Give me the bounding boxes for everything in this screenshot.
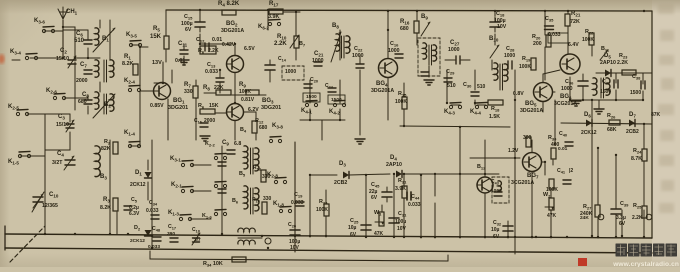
svg-text:C22: C22 bbox=[354, 46, 363, 52]
svg-text:300: 300 bbox=[523, 135, 532, 141]
svg-text:C8: C8 bbox=[82, 92, 89, 98]
svg-text:2AP10: 2AP10 bbox=[600, 60, 616, 66]
svg-text:15K: 15K bbox=[209, 103, 219, 109]
svg-text:3CG201A: 3CG201A bbox=[511, 180, 534, 186]
svg-text:100µ: 100µ bbox=[395, 219, 406, 225]
svg-text:C29: C29 bbox=[446, 69, 455, 75]
svg-text:B5: B5 bbox=[239, 171, 246, 177]
svg-text:3.9K: 3.9K bbox=[268, 14, 279, 20]
svg-text:C32: C32 bbox=[493, 220, 502, 226]
svg-text:K3-6: K3-6 bbox=[34, 18, 45, 24]
svg-text:C18: C18 bbox=[496, 11, 505, 17]
svg-text:100K: 100K bbox=[316, 207, 328, 213]
svg-text:2AP10: 2AP10 bbox=[386, 162, 402, 168]
svg-text:D5: D5 bbox=[604, 53, 611, 59]
svg-text:3DG201: 3DG201 bbox=[168, 105, 188, 111]
svg-text:C37: C37 bbox=[602, 79, 611, 85]
svg-text:680: 680 bbox=[78, 99, 87, 105]
svg-text:K2-5: K2-5 bbox=[8, 104, 19, 110]
svg-text:K4-3: K4-3 bbox=[444, 109, 455, 115]
svg-text:0.033: 0.033 bbox=[408, 202, 421, 208]
svg-text:2000: 2000 bbox=[76, 78, 88, 84]
svg-text:B7: B7 bbox=[299, 41, 306, 47]
svg-text:C35: C35 bbox=[545, 16, 554, 22]
svg-text:K1-4: K1-4 bbox=[124, 130, 135, 136]
svg-text:B1: B1 bbox=[102, 36, 109, 42]
svg-text:1.5K: 1.5K bbox=[489, 114, 500, 120]
svg-text:C44: C44 bbox=[411, 194, 420, 200]
svg-text:100K: 100K bbox=[395, 99, 407, 105]
svg-text:1500: 1500 bbox=[331, 97, 342, 103]
svg-text:K2-2: K2-2 bbox=[205, 141, 216, 147]
svg-text:82K: 82K bbox=[101, 146, 111, 152]
svg-text:0.033: 0.033 bbox=[205, 69, 218, 75]
svg-text:1000: 1000 bbox=[388, 48, 400, 54]
svg-text:R7: R7 bbox=[184, 82, 191, 88]
svg-text:B2: B2 bbox=[104, 102, 111, 108]
svg-text:K2-4: K2-4 bbox=[124, 78, 135, 84]
svg-text:R6: R6 bbox=[198, 103, 205, 109]
svg-text:C3: C3 bbox=[58, 114, 65, 120]
svg-text:R16: R16 bbox=[400, 19, 410, 25]
svg-text:2CB2: 2CB2 bbox=[626, 129, 639, 135]
svg-text:3CG201A: 3CG201A bbox=[554, 101, 577, 107]
svg-text:680: 680 bbox=[400, 26, 409, 32]
svg-text:K4-1: K4-1 bbox=[301, 108, 312, 114]
svg-text:C40: C40 bbox=[559, 131, 567, 137]
svg-text:R9: R9 bbox=[239, 82, 246, 88]
svg-text:|2: |2 bbox=[569, 168, 573, 174]
svg-text:D1: D1 bbox=[135, 170, 142, 176]
svg-text:1000: 1000 bbox=[561, 86, 573, 92]
svg-text:R17: R17 bbox=[269, 1, 279, 7]
svg-text:K4-2: K4-2 bbox=[329, 109, 340, 115]
svg-text:K1-6: K1-6 bbox=[202, 213, 213, 219]
svg-text:1000: 1000 bbox=[448, 47, 460, 53]
svg-text:3DG201A: 3DG201A bbox=[371, 88, 394, 94]
svg-text:C48: C48 bbox=[152, 226, 161, 232]
svg-text:BG6: BG6 bbox=[560, 94, 572, 100]
svg-text:R23: R23 bbox=[619, 53, 628, 59]
svg-text:C31: C31 bbox=[398, 211, 407, 217]
svg-text:C4: C4 bbox=[57, 151, 64, 157]
svg-text:0.033: 0.033 bbox=[548, 32, 561, 38]
svg-text:B12: B12 bbox=[477, 164, 486, 170]
svg-text:BG5: BG5 bbox=[525, 101, 537, 107]
svg-text:C5: C5 bbox=[131, 197, 138, 203]
svg-text:0.42V: 0.42V bbox=[222, 42, 236, 48]
svg-text:6V: 6V bbox=[493, 234, 500, 240]
svg-text:R10: R10 bbox=[277, 34, 287, 40]
svg-text:1000: 1000 bbox=[285, 69, 296, 75]
svg-text:0.033: 0.033 bbox=[148, 244, 160, 250]
svg-text:R26: R26 bbox=[607, 113, 616, 119]
svg-text:510: 510 bbox=[447, 83, 456, 89]
svg-text:8.2K: 8.2K bbox=[122, 61, 133, 67]
svg-text:K2-1: K2-1 bbox=[171, 182, 182, 188]
svg-text:BG3: BG3 bbox=[262, 98, 274, 104]
svg-text:15K: 15K bbox=[150, 34, 162, 40]
svg-text:2000: 2000 bbox=[204, 118, 215, 124]
svg-text:10V: 10V bbox=[497, 24, 507, 30]
svg-text:B4: B4 bbox=[240, 127, 247, 133]
svg-text:D7: D7 bbox=[629, 112, 636, 118]
svg-text:K2-6: K2-6 bbox=[46, 88, 57, 94]
svg-text:C16: C16 bbox=[390, 41, 399, 47]
svg-text:2.2K: 2.2K bbox=[617, 60, 628, 66]
svg-text:47K: 47K bbox=[547, 213, 557, 219]
svg-text:K6-2: K6-2 bbox=[258, 24, 269, 30]
svg-text:1000: 1000 bbox=[491, 188, 502, 194]
svg-text:6V: 6V bbox=[371, 195, 378, 201]
svg-text:2CK12: 2CK12 bbox=[581, 130, 597, 136]
svg-text:72K: 72K bbox=[570, 19, 580, 25]
svg-text:C9: C9 bbox=[222, 140, 229, 146]
svg-text:C17: C17 bbox=[168, 224, 176, 230]
svg-text:www.crystalradio.cn: www.crystalradio.cn bbox=[612, 261, 679, 267]
svg-text:0.85V: 0.85V bbox=[150, 103, 164, 109]
svg-text:3DG201A: 3DG201A bbox=[520, 108, 543, 114]
svg-text:6.2V: 6.2V bbox=[248, 107, 259, 113]
svg-text:0.01: 0.01 bbox=[558, 146, 568, 152]
svg-text:2CK12: 2CK12 bbox=[130, 182, 146, 188]
svg-text:D3: D3 bbox=[339, 161, 346, 167]
svg-text:1000: 1000 bbox=[312, 58, 324, 64]
svg-text:3/7: 3/7 bbox=[194, 237, 201, 243]
svg-text:510: 510 bbox=[74, 38, 85, 44]
svg-text:K3-8: K3-8 bbox=[272, 123, 283, 129]
svg-text:R4 8.2K: R4 8.2K bbox=[218, 1, 240, 7]
svg-text:R24: R24 bbox=[633, 148, 642, 154]
svg-text:K3-1: K3-1 bbox=[170, 156, 181, 162]
svg-text:K2-8: K2-8 bbox=[267, 172, 278, 178]
svg-text:B8: B8 bbox=[332, 23, 339, 29]
svg-text:1000: 1000 bbox=[352, 53, 364, 59]
svg-text:2.2K: 2.2K bbox=[208, 48, 219, 54]
svg-text:BG1: BG1 bbox=[173, 98, 185, 104]
svg-text:K3-4: K3-4 bbox=[10, 49, 21, 55]
svg-text:2CB2: 2CB2 bbox=[334, 180, 347, 186]
svg-text:C28: C28 bbox=[506, 46, 515, 52]
svg-text:47K: 47K bbox=[374, 231, 384, 237]
svg-text:K4-4: K4-4 bbox=[470, 109, 481, 115]
svg-text:10µ: 10µ bbox=[491, 227, 500, 233]
svg-text:R19: R19 bbox=[522, 56, 531, 62]
svg-text:R5: R5 bbox=[153, 26, 160, 32]
svg-text:22K: 22K bbox=[214, 85, 224, 91]
svg-text:R1: R1 bbox=[124, 54, 131, 60]
svg-text:R21: R21 bbox=[571, 11, 581, 17]
svg-text:15/10: 15/10 bbox=[56, 122, 69, 128]
svg-text:R25: R25 bbox=[633, 203, 642, 209]
svg-text:R35: R35 bbox=[319, 199, 328, 205]
svg-text:B10: B10 bbox=[489, 36, 499, 42]
svg-text:K1-8: K1-8 bbox=[273, 201, 284, 207]
svg-text:R8: R8 bbox=[203, 85, 210, 91]
svg-text:C10: C10 bbox=[49, 192, 59, 198]
svg-text:R15: R15 bbox=[398, 91, 407, 97]
svg-text:K3-5: K3-5 bbox=[126, 32, 137, 38]
svg-text:R6: R6 bbox=[198, 48, 205, 54]
svg-text:2CK12: 2CK12 bbox=[130, 238, 145, 244]
svg-text:6V: 6V bbox=[350, 232, 357, 238]
svg-text:12/365: 12/365 bbox=[42, 203, 58, 209]
svg-text:0.01: 0.01 bbox=[212, 37, 222, 43]
svg-text:B11: B11 bbox=[601, 46, 610, 52]
svg-text:0.033: 0.033 bbox=[291, 200, 304, 206]
svg-text:C12: C12 bbox=[196, 37, 205, 43]
svg-text:6V: 6V bbox=[619, 221, 626, 227]
svg-text:C41: C41 bbox=[557, 168, 566, 174]
svg-text:C45: C45 bbox=[371, 182, 380, 188]
svg-text:24K: 24K bbox=[580, 215, 589, 221]
svg-text:330: 330 bbox=[184, 89, 193, 95]
svg-text:R22: R22 bbox=[585, 29, 594, 35]
svg-text:CH1: CH1 bbox=[66, 9, 78, 15]
svg-text:C13: C13 bbox=[207, 62, 216, 68]
svg-text:3DG201A: 3DG201A bbox=[221, 28, 244, 34]
svg-text:15/10: 15/10 bbox=[56, 56, 69, 62]
svg-text:R2: R2 bbox=[104, 139, 111, 145]
svg-text:BG2: BG2 bbox=[226, 21, 238, 27]
svg-text:B6: B6 bbox=[232, 198, 239, 204]
svg-text:6.5V: 6.5V bbox=[244, 46, 255, 52]
svg-text:C27: C27 bbox=[450, 40, 460, 46]
svg-text:R18: R18 bbox=[491, 106, 500, 112]
svg-text:10µ: 10µ bbox=[348, 225, 357, 231]
svg-text:100K: 100K bbox=[519, 64, 531, 70]
svg-text:2.2K: 2.2K bbox=[632, 215, 643, 221]
svg-text:C34: C34 bbox=[149, 200, 158, 206]
svg-text:680: 680 bbox=[259, 125, 268, 131]
svg-text:C20: C20 bbox=[310, 77, 318, 83]
svg-text:1.2V: 1.2V bbox=[508, 148, 519, 154]
svg-text:C25: C25 bbox=[350, 218, 359, 224]
svg-text:C38: C38 bbox=[632, 74, 641, 80]
svg-text:3DG201: 3DG201 bbox=[261, 105, 281, 111]
svg-text:6.4V: 6.4V bbox=[568, 42, 579, 48]
svg-text:C21: C21 bbox=[314, 51, 324, 57]
svg-text:BG4: BG4 bbox=[376, 81, 388, 87]
svg-text:D2: D2 bbox=[134, 225, 141, 231]
svg-text:R20: R20 bbox=[532, 34, 541, 40]
svg-text:R3: R3 bbox=[103, 197, 110, 203]
svg-text:B9: B9 bbox=[421, 14, 428, 20]
svg-text:6.3V: 6.3V bbox=[129, 211, 140, 217]
svg-text:510: 510 bbox=[477, 84, 486, 90]
svg-text:C2: C2 bbox=[60, 48, 67, 54]
svg-text:8.7K: 8.7K bbox=[631, 156, 642, 162]
svg-text:C19: C19 bbox=[294, 192, 303, 198]
svg-text:100K: 100K bbox=[582, 37, 594, 43]
svg-text:R27: R27 bbox=[583, 204, 592, 210]
svg-text:3.9K: 3.9K bbox=[395, 186, 406, 192]
svg-text:200: 200 bbox=[533, 41, 542, 47]
svg-text:C7: C7 bbox=[80, 62, 87, 68]
svg-text:C6: C6 bbox=[76, 31, 83, 37]
svg-text:C36: C36 bbox=[565, 79, 574, 85]
svg-text:2.2K: 2.2K bbox=[274, 41, 287, 47]
svg-text:330: 330 bbox=[263, 196, 272, 202]
svg-text:K1-5: K1-5 bbox=[8, 159, 19, 165]
svg-text:1000: 1000 bbox=[504, 53, 515, 59]
svg-text:10V: 10V bbox=[397, 226, 407, 232]
svg-text:13V: 13V bbox=[152, 60, 162, 66]
svg-text:R12: R12 bbox=[255, 118, 264, 124]
svg-text:R34 10K: R34 10K bbox=[203, 261, 223, 267]
svg-text:0.033: 0.033 bbox=[146, 208, 159, 214]
svg-text:10V: 10V bbox=[290, 245, 300, 251]
svg-text:C11: C11 bbox=[178, 41, 188, 47]
svg-text:C30: C30 bbox=[463, 82, 472, 88]
svg-text:1500: 1500 bbox=[630, 90, 641, 96]
svg-text:0.01: 0.01 bbox=[175, 58, 185, 64]
svg-text:0.8V: 0.8V bbox=[513, 91, 524, 97]
svg-text:C15: C15 bbox=[184, 14, 193, 20]
svg-text:390: 390 bbox=[167, 231, 175, 237]
svg-text:D6: D6 bbox=[584, 112, 591, 118]
svg-text:B3: B3 bbox=[100, 174, 107, 180]
svg-text:100K: 100K bbox=[239, 89, 251, 95]
svg-text:C20: C20 bbox=[288, 222, 296, 228]
svg-text:BG7: BG7 bbox=[527, 173, 539, 179]
svg-text:0.81V: 0.81V bbox=[241, 97, 255, 103]
svg-text:6.8: 6.8 bbox=[234, 141, 241, 147]
svg-text:R31: R31 bbox=[398, 178, 407, 184]
svg-text:D4: D4 bbox=[390, 155, 397, 161]
svg-text:1500: 1500 bbox=[600, 89, 611, 95]
svg-text:8.2K: 8.2K bbox=[100, 205, 111, 211]
svg-text:R30: R30 bbox=[548, 135, 557, 141]
svg-text:1500: 1500 bbox=[306, 94, 317, 100]
svg-text:6V: 6V bbox=[185, 27, 192, 33]
svg-text:3/2T: 3/2T bbox=[52, 160, 63, 166]
svg-text:68K: 68K bbox=[607, 127, 617, 133]
svg-text:K1-3: K1-3 bbox=[168, 210, 179, 216]
svg-text:C39: C39 bbox=[620, 201, 629, 207]
svg-text:W1: W1 bbox=[374, 210, 382, 216]
svg-text:87K: 87K bbox=[651, 112, 661, 118]
svg-text:W2: W2 bbox=[543, 192, 551, 198]
